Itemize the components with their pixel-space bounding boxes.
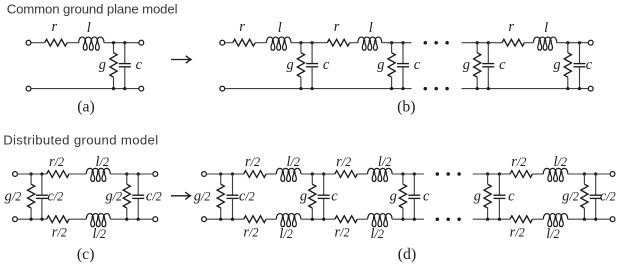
svg-text:(d): (d) <box>398 246 416 263</box>
wire (d) bottom rail seg3 <box>301 218 335 220</box>
svg-text:l/2: l/2 <box>96 154 109 170</box>
svg-text:g: g <box>390 189 397 205</box>
node (d) bottom junction c mid2 <box>413 218 416 221</box>
label g (b) shunt3 <box>463 57 470 73</box>
label r/2 (d) top2 <box>336 154 351 170</box>
svg-text:r/2: r/2 <box>52 225 67 241</box>
terminal (d) output top <box>610 172 615 177</box>
wire (d) bottom rail seg7 <box>532 218 543 220</box>
label l (b) section1 <box>278 20 282 36</box>
svg-text:c: c <box>499 57 506 73</box>
node (b) bottom junction c1 <box>311 87 314 90</box>
terminal (b) output bottom <box>588 86 593 91</box>
resistor r/2 (d) top1 <box>244 171 266 178</box>
label r/2 (c) top <box>49 154 64 170</box>
node (d) bottom junction g/2 left <box>219 218 222 221</box>
conductance g/2 (c) right <box>123 174 130 219</box>
wire (b) top rail seg7 <box>524 42 533 44</box>
resistor r/2 (d) top3 <box>510 171 532 178</box>
label c (b) shunt4 <box>586 57 593 73</box>
label c (b) shunt2 <box>414 57 421 73</box>
wire (d) bottom rail seg4 <box>357 218 367 220</box>
ellipsis dots (b) bottom rail <box>424 87 449 91</box>
title: Distributed ground model <box>3 133 158 148</box>
node (d) bottom junction g mid1 <box>311 218 314 221</box>
wire (b) top rail seg2 <box>255 42 266 44</box>
svg-text:l: l <box>87 20 91 36</box>
resistor r/2 (d) bottom3 <box>510 216 532 223</box>
capacitor c (b) shunt1 <box>306 43 318 89</box>
terminal (c) input top <box>13 172 18 177</box>
wire (d) top rail seg5 <box>392 173 424 175</box>
terminal (c) input bottom <box>13 217 18 222</box>
svg-text:r: r <box>334 19 340 35</box>
svg-text:r: r <box>51 19 57 35</box>
capacitor c (d) mid3 <box>493 174 505 219</box>
label g (b) shunt4 <box>553 57 560 73</box>
label c (d) mid2 <box>423 189 430 205</box>
label r/2 (d) top3 <box>511 154 526 170</box>
svg-text:r: r <box>239 19 245 35</box>
node (b) top junction g1 <box>299 41 302 44</box>
label l/2 (d) bottom2 <box>371 226 384 242</box>
label r (a) <box>51 19 57 35</box>
label r/2 (d) top1 <box>245 154 260 170</box>
conductance g (d) mid2 <box>399 174 406 219</box>
svg-text:c: c <box>586 57 593 73</box>
node (b) bottom junction g1 <box>299 87 302 90</box>
conductance g (b) shunt4 <box>564 43 571 89</box>
svg-text:g: g <box>377 57 384 73</box>
conductance g (d) mid3 <box>484 174 491 219</box>
terminal (d) output bottom <box>610 217 615 222</box>
resistor r/2 (d) bottom1 <box>244 216 266 223</box>
wire (a) top rail mid <box>67 42 79 44</box>
svg-text:r/2: r/2 <box>510 225 525 241</box>
label c/2 (c) left <box>47 189 63 205</box>
label c/2 (d) right <box>600 189 616 205</box>
node (d) bottom junction c/2 left <box>231 218 234 221</box>
capacitor c (d) mid2 <box>408 174 420 219</box>
svg-text:r/2: r/2 <box>243 225 258 241</box>
terminal (a) output bottom <box>139 86 144 91</box>
label r (b) section2 <box>334 19 340 35</box>
label c (b) shunt3 <box>499 57 506 73</box>
label c (d) mid3 <box>508 189 515 205</box>
node (d) bottom junction g mid2 <box>401 218 404 221</box>
svg-text:g/2: g/2 <box>194 189 211 205</box>
inductor l/2 (c) top <box>86 168 110 181</box>
conductance g/2 (c) left <box>28 174 35 219</box>
resistor r/2 (c) top <box>47 171 69 178</box>
label (b) <box>397 99 415 116</box>
capacitor c (b) shunt3 <box>482 43 494 89</box>
node (d) top junction g mid2 <box>401 172 404 175</box>
terminal (b) input bottom <box>220 86 225 91</box>
wire (b) top rail seg8 <box>557 42 588 44</box>
svg-text:c/2: c/2 <box>146 189 162 205</box>
node (b) bottom junction g2 <box>390 87 393 90</box>
svg-text:r: r <box>508 19 514 35</box>
label g/2 (d) left <box>194 189 211 205</box>
wire (d) bottom rail seg6 <box>473 218 510 220</box>
label l/2 (c) bottom <box>93 226 106 242</box>
label g/2 (d) right <box>562 189 579 205</box>
label l/2 (c) top <box>96 154 109 170</box>
label l/2 (d) top1 <box>287 154 300 170</box>
wire (c) bottom rail left <box>17 218 46 220</box>
svg-text:c: c <box>414 57 421 73</box>
node (d) top junction g/2 left <box>219 172 222 175</box>
node (d) top junction c mid3 <box>498 172 501 175</box>
node (d) top junction c/2 right <box>594 172 597 175</box>
terminal (c) output bottom <box>153 217 158 222</box>
arrow from (a) to (b) <box>171 56 191 63</box>
conductance g/2 (d) right <box>581 174 588 219</box>
svg-text:c/2: c/2 <box>239 189 255 205</box>
label (d) <box>398 246 416 263</box>
node (b) top junction g3 <box>476 41 479 44</box>
wire (b) top rail seg4 <box>350 42 358 44</box>
node (b) top junction g4 <box>566 41 569 44</box>
svg-text:c/2: c/2 <box>600 189 616 205</box>
resistor r/2 (d) top2 <box>335 171 357 178</box>
node (b) top junction c2 <box>401 41 404 44</box>
node (a) bottom junction g <box>112 87 115 90</box>
capacitor c/2 (d) left <box>227 174 239 219</box>
svg-text:c: c <box>508 189 515 205</box>
node (d) bottom junction c mid3 <box>498 218 501 221</box>
svg-text:l: l <box>544 20 548 36</box>
title: Common ground plane model <box>7 2 178 17</box>
label c (a) <box>136 57 143 73</box>
svg-text:g: g <box>300 189 307 205</box>
capacitor c/2 (c) left <box>36 174 48 219</box>
label c (b) shunt1 <box>323 57 330 73</box>
label l/2 (d) bottom3 <box>546 226 559 242</box>
svg-text:c: c <box>331 189 338 205</box>
label r/2 (d) bottom2 <box>335 225 350 241</box>
conductance g (b) shunt2 <box>388 43 395 89</box>
inductor l (a) <box>79 37 104 50</box>
node (d) top junction g mid1 <box>311 172 314 175</box>
svg-text:g/2: g/2 <box>562 189 579 205</box>
conductance g (a) <box>110 43 117 89</box>
wire (c) bottom rail right <box>110 218 153 220</box>
conductance g/2 (d) left <box>217 174 224 219</box>
wire (d) top rail seg3 <box>301 173 335 175</box>
svg-text:r/2: r/2 <box>245 154 260 170</box>
ellipsis dots (b) top rail <box>424 41 449 45</box>
label l (b) section3 <box>544 20 548 36</box>
resistor r (b) section3 <box>502 39 524 46</box>
label (c) <box>77 246 95 263</box>
wire (d) top rail seg8 <box>568 173 610 175</box>
node (b) bottom junction c4 <box>578 87 581 90</box>
inductor l/2 (d) bottom1 <box>276 214 301 227</box>
node (c) top junction c/2 left <box>40 172 43 175</box>
wire (c) bottom rail mid <box>69 218 86 220</box>
capacitor c (b) shunt2 <box>397 43 409 89</box>
label c/2 (c) right <box>146 189 162 205</box>
node (c) top junction c/2 right <box>137 172 140 175</box>
node (c) bottom junction c/2 right <box>137 218 140 221</box>
wire (d) bottom rail seg8 <box>568 218 610 220</box>
svg-text:g: g <box>474 189 481 205</box>
wire (d) top rail seg4 <box>357 173 367 175</box>
label l/2 (d) top2 <box>378 154 391 170</box>
inductor l/2 (d) top2 <box>368 168 393 181</box>
terminal (a) output top <box>139 40 144 45</box>
terminal (d) input bottom <box>202 217 207 222</box>
wire (b) bottom rail left <box>225 88 412 90</box>
node (b) bottom junction c3 <box>487 87 490 90</box>
svg-text:l/2: l/2 <box>554 154 567 170</box>
conductance g (d) mid1 <box>309 174 316 219</box>
node (c) bottom junction g/2 right <box>125 218 128 221</box>
svg-text:g: g <box>463 57 470 73</box>
node (d) bottom junction g/2 right <box>583 218 586 221</box>
wire (b) top rail seg1 <box>225 42 233 44</box>
wire (b) top rail seg3 <box>291 42 327 44</box>
label c/2 (d) left <box>239 189 255 205</box>
node (d) bottom junction g mid3 <box>486 218 489 221</box>
conductance g (b) shunt3 <box>474 43 481 89</box>
svg-text:c: c <box>423 189 430 205</box>
label c (d) mid1 <box>331 189 338 205</box>
resistor r/2 (c) bottom <box>47 216 69 223</box>
terminal (d) input top <box>202 172 207 177</box>
inductor l (b) section1 <box>266 37 291 50</box>
svg-text:g/2: g/2 <box>5 189 22 205</box>
inductor l/2 (d) top3 <box>543 168 568 181</box>
wire (a) bottom rail <box>31 88 138 90</box>
node (d) bottom junction c/2 right <box>594 218 597 221</box>
label l (a) <box>87 20 91 36</box>
label g (d) mid3 <box>474 189 481 205</box>
wire (d) top rail seg2 <box>266 173 276 175</box>
resistor r (a) <box>45 39 67 46</box>
wire (c) top rail mid <box>69 173 86 175</box>
node (b) top junction c3 <box>487 41 490 44</box>
label g (a) <box>99 57 106 73</box>
inductor l/2 (d) bottom2 <box>368 214 393 227</box>
node (d) top junction c/2 left <box>231 172 234 175</box>
terminal (a) input bottom <box>26 86 31 91</box>
svg-text:g: g <box>553 57 560 73</box>
svg-text:(c): (c) <box>77 246 95 263</box>
inductor l/2 (c) bottom <box>86 214 110 227</box>
label r/2 (c) bottom <box>52 225 67 241</box>
resistor r (b) section2 <box>327 39 349 46</box>
node (b) top junction c1 <box>311 41 314 44</box>
wire (d) top rail seg6 <box>473 173 510 175</box>
label l/2 (d) bottom1 <box>279 226 292 242</box>
label g (d) mid2 <box>390 189 397 205</box>
node (d) top junction g mid3 <box>486 172 489 175</box>
capacitor c (d) mid1 <box>318 174 330 219</box>
svg-text:r/2: r/2 <box>335 225 350 241</box>
inductor l (b) section2 <box>358 37 382 50</box>
svg-text:r/2: r/2 <box>336 154 351 170</box>
ellipsis dots (d) bottom rail <box>436 217 461 221</box>
inductor l/2 (d) bottom3 <box>543 214 568 227</box>
svg-text:r/2: r/2 <box>49 154 64 170</box>
label g (b) shunt2 <box>377 57 384 73</box>
capacitor c/2 (d) right <box>590 174 602 219</box>
resistor r (b) section1 <box>233 39 255 46</box>
node (a) top junction c <box>123 41 126 44</box>
node (a) bottom junction c <box>123 87 126 90</box>
wire (d) top rail seg1 <box>207 173 244 175</box>
wire (d) bottom rail seg1 <box>207 218 244 220</box>
node (c) bottom junction g/2 left <box>30 218 33 221</box>
svg-text:r/2: r/2 <box>511 154 526 170</box>
label l (b) section2 <box>369 20 373 36</box>
svg-text:g: g <box>99 57 106 73</box>
svg-text:c/2: c/2 <box>47 189 63 205</box>
svg-text:l/2: l/2 <box>371 226 384 242</box>
terminal (a) input top <box>26 40 31 45</box>
node (b) top junction g2 <box>390 41 393 44</box>
node (b) top junction c4 <box>578 41 581 44</box>
svg-text:l/2: l/2 <box>279 226 292 242</box>
terminal (c) output top <box>153 172 158 177</box>
label g/2 (c) right <box>105 189 122 205</box>
label r/2 (d) bottom3 <box>510 225 525 241</box>
svg-text:l: l <box>369 20 373 36</box>
node (a) top junction g <box>112 41 115 44</box>
label g (d) mid1 <box>300 189 307 205</box>
node (b) bottom junction c2 <box>401 87 404 90</box>
wire (d) bottom rail seg5 <box>392 218 424 220</box>
label r (b) section3 <box>508 19 514 35</box>
svg-text:l/2: l/2 <box>287 154 300 170</box>
svg-text:l/2: l/2 <box>546 226 559 242</box>
svg-text:l/2: l/2 <box>378 154 391 170</box>
wire (b) top rail seg6 <box>462 42 503 44</box>
svg-text:g: g <box>286 57 293 73</box>
node (d) top junction g/2 right <box>583 172 586 175</box>
capacitor c/2 (c) right <box>132 174 144 219</box>
wire (a) top rail left <box>31 42 45 44</box>
node (c) bottom junction c/2 left <box>40 218 43 221</box>
node (c) top junction g/2 left <box>30 172 33 175</box>
node (c) top junction g/2 right <box>125 172 128 175</box>
svg-text:l: l <box>278 20 282 36</box>
inductor l (b) section3 <box>533 37 556 50</box>
wire (a) top rail right <box>104 42 139 44</box>
label r (b) section1 <box>239 19 245 35</box>
node (d) bottom junction c mid1 <box>322 218 325 221</box>
label g (b) shunt1 <box>286 57 293 73</box>
label (a) <box>77 99 95 116</box>
resistor r/2 (d) bottom2 <box>335 216 357 223</box>
svg-text:l/2: l/2 <box>93 226 106 242</box>
ellipsis dots (d) top rail <box>436 172 461 176</box>
node (b) bottom junction g3 <box>476 87 479 90</box>
wire (b) top rail seg5 <box>382 42 412 44</box>
label r/2 (d) bottom1 <box>243 225 258 241</box>
wire (d) top rail seg7 <box>532 173 543 175</box>
capacitor c (a) <box>119 43 131 89</box>
inductor l/2 (d) top1 <box>276 168 301 181</box>
svg-text:g/2: g/2 <box>105 189 122 205</box>
wire (d) bottom rail seg2 <box>266 218 276 220</box>
wire (c) top rail left <box>17 173 46 175</box>
svg-text:(a): (a) <box>77 99 95 116</box>
svg-text:c: c <box>323 57 330 73</box>
terminal (b) input top <box>220 40 225 45</box>
wire (c) top rail right <box>110 173 153 175</box>
node (b) bottom junction g4 <box>566 87 569 90</box>
arrow from (c) to (d) <box>171 193 191 200</box>
conductance g (b) shunt1 <box>297 43 304 89</box>
capacitor c (b) shunt4 <box>574 43 586 89</box>
wire (b) bottom rail right <box>462 88 589 90</box>
svg-text:Distributed ground model: Distributed ground model <box>3 133 158 148</box>
node (d) top junction c mid1 <box>322 172 325 175</box>
terminal (b) output top <box>588 40 593 45</box>
label l/2 (d) top3 <box>554 154 567 170</box>
svg-text:(b): (b) <box>397 99 415 116</box>
label g/2 (c) left <box>5 189 22 205</box>
svg-text:c: c <box>136 57 143 73</box>
node (d) top junction c mid2 <box>413 172 416 175</box>
svg-text:Common ground plane model: Common ground plane model <box>7 2 178 17</box>
